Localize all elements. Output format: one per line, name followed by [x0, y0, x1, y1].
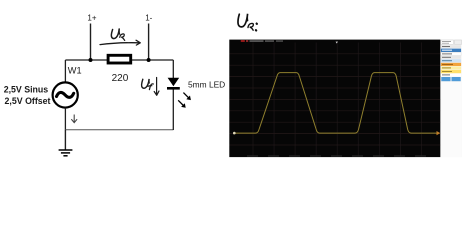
current direction arrow: [71, 115, 77, 123]
waveform start dot: [233, 132, 236, 135]
svg-text:2,5V Offset: 2,5V Offset: [5, 96, 51, 106]
node 1- stub: [147, 24, 151, 63]
node 1+ stub: [89, 24, 93, 63]
wire source top vertical: [64, 60, 66, 82]
annotation U_R: title: [238, 14, 257, 31]
LED light arrows: [178, 93, 191, 108]
scope trigger position marker: [336, 42, 338, 44]
annotation U_R with arrow: [100, 29, 140, 45]
scope grid vertical lines: [253, 43, 421, 157]
scope bottom tick labels: [247, 155, 426, 156]
wire bottom horizontal: [65, 129, 173, 131]
scope right panel: [440, 40, 461, 158]
scope grid horizontal lines: [230, 54, 441, 145]
oscilloscope screenshot: [229, 40, 461, 158]
annotation U_F with down arrow: [142, 78, 159, 96]
svg-text:2,5V Sinus: 2,5V Sinus: [4, 85, 49, 95]
label 2,5V Sinus / 2,5V Offset: [4, 85, 51, 106]
waveform trace channel1: [235, 73, 438, 134]
voltage source W1: [53, 82, 78, 107]
svg-text:220: 220: [112, 73, 129, 84]
wire LED branch vertical top: [172, 60, 174, 78]
svg-text:5mm LED: 5mm LED: [188, 80, 225, 90]
LED D1: [167, 78, 180, 89]
waveform right edge marker: [437, 131, 441, 135]
scope title bar text marks: [241, 40, 283, 41]
svg-text:W1: W1: [68, 66, 82, 76]
ground: [59, 130, 73, 156]
wire LED branch vertical bottom: [172, 90, 174, 131]
wire top horizontal: [65, 59, 173, 61]
resistor R1 220: [108, 55, 131, 63]
svg-text:1+: 1+: [87, 14, 96, 23]
scope dark plot background: [229, 40, 440, 158]
svg-text:1-: 1-: [145, 14, 152, 23]
wire source bottom vertical: [64, 108, 66, 130]
